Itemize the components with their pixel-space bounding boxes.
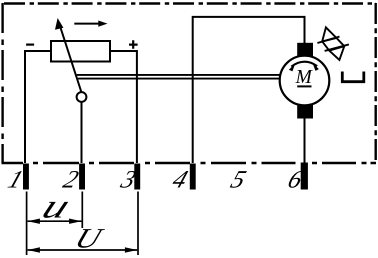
connector housing bracket bbox=[342, 72, 364, 82]
terminal 2 pin bbox=[79, 164, 85, 190]
dimension extension line below terminal 3 bbox=[137, 192, 139, 256]
wire: wiper pivot down to terminal 2 bbox=[81, 102, 83, 163]
motor bottom brush bbox=[297, 105, 313, 119]
wire: motor bottom brush down to terminal 6 bbox=[304, 119, 306, 164]
svg-text:M: M bbox=[295, 67, 314, 88]
dash-dot enclosure border bottom bbox=[2, 162, 377, 164]
label U bbox=[71, 222, 109, 254]
label u bbox=[37, 188, 76, 225]
terminal 3 pin bbox=[134, 164, 140, 190]
dash-dot enclosure border right bbox=[375, 3, 377, 163]
wire: double line lower from wiper to motor bbox=[78, 78, 280, 80]
wire: terminal 4 up and over to motor top brush bbox=[193, 17, 305, 163]
motor top brush bbox=[297, 43, 313, 56]
terminal 1 pin bbox=[23, 164, 29, 190]
wire: double line upper from wiper to motor bbox=[77, 74, 280, 76]
dimension extension line below terminal 1 bbox=[26, 192, 28, 256]
terminal 6 pin bbox=[301, 163, 308, 190]
minus polarity label bbox=[26, 43, 34, 45]
dash-dot enclosure border left bbox=[1, 3, 3, 163]
motor reversible-rotation curved arrow bbox=[289, 62, 319, 72]
wiper pivot circle bbox=[77, 92, 87, 102]
potentiometer wiper arm with arrowhead bbox=[55, 18, 82, 93]
plus polarity label bbox=[129, 40, 138, 49]
wire: resistor left lead down to terminal 1 bbox=[25, 51, 51, 163]
resistor R (potentiometer track) bbox=[51, 41, 110, 62]
dash-dot enclosure border top bbox=[4, 2, 376, 5]
dimension extension line below terminal 2 bbox=[81, 192, 83, 229]
wire: resistor right lead down to terminal 3 bbox=[110, 51, 137, 163]
interference suppressor symbol (crossed double-triangle) bbox=[317, 27, 349, 60]
terminal 4 pin bbox=[190, 164, 196, 190]
motor M1 body circle bbox=[280, 56, 330, 106]
dimension line u (terminals 1-2) bbox=[28, 219, 82, 224]
dimension line U (terminals 1-3) bbox=[28, 247, 138, 252]
direction arrow above resistor bbox=[74, 21, 107, 27]
